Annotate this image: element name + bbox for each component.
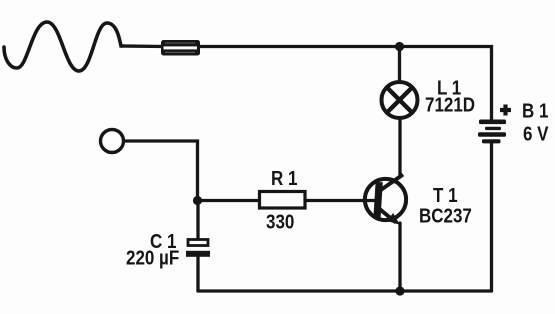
wire: antenna squiggle lead-in <box>4 22 123 71</box>
svg-text:B 1: B 1 <box>522 99 548 122</box>
wire: lamp to transistor collector <box>398 118 401 177</box>
transistor T1 <box>365 175 406 225</box>
fuse <box>161 40 200 56</box>
svg-text:T 1: T 1 <box>433 184 458 207</box>
wire: junction to R1 <box>198 199 260 202</box>
svg-text:220 µF: 220 µF <box>126 246 179 269</box>
capacitor C1 <box>186 240 210 257</box>
svg-text:330: 330 <box>266 210 294 233</box>
svg-text:6 V: 6 V <box>523 122 549 145</box>
svg-text:BC237: BC237 <box>419 204 472 227</box>
node: base/C1 junction <box>193 196 202 205</box>
wire: battery bottom drop <box>490 143 493 291</box>
battery B1 <box>478 120 506 144</box>
lamp L1 <box>382 82 418 118</box>
terminal: input probe <box>101 130 124 153</box>
svg-text:7121D: 7121D <box>425 93 475 116</box>
wire: R1 to base <box>306 199 376 202</box>
node: emitter/rail junction <box>395 286 404 295</box>
wire: lamp feed from top junction <box>398 47 401 83</box>
resistor R1 <box>260 192 306 209</box>
wire: junction down to C1 <box>196 201 199 240</box>
wire: input terminal to corner and down to junction <box>125 141 198 201</box>
wire: squiggle to fuse <box>122 44 163 48</box>
wire: emitter to bottom rail <box>398 223 401 291</box>
wire: bottom rail <box>198 289 492 292</box>
wire: C1 to bottom rail <box>196 256 199 291</box>
wire: fuse to top-right corner and battery drop <box>198 47 492 121</box>
node: top junction <box>395 42 404 51</box>
svg-text:R 1: R 1 <box>271 167 297 190</box>
battery plus sign <box>500 105 511 116</box>
